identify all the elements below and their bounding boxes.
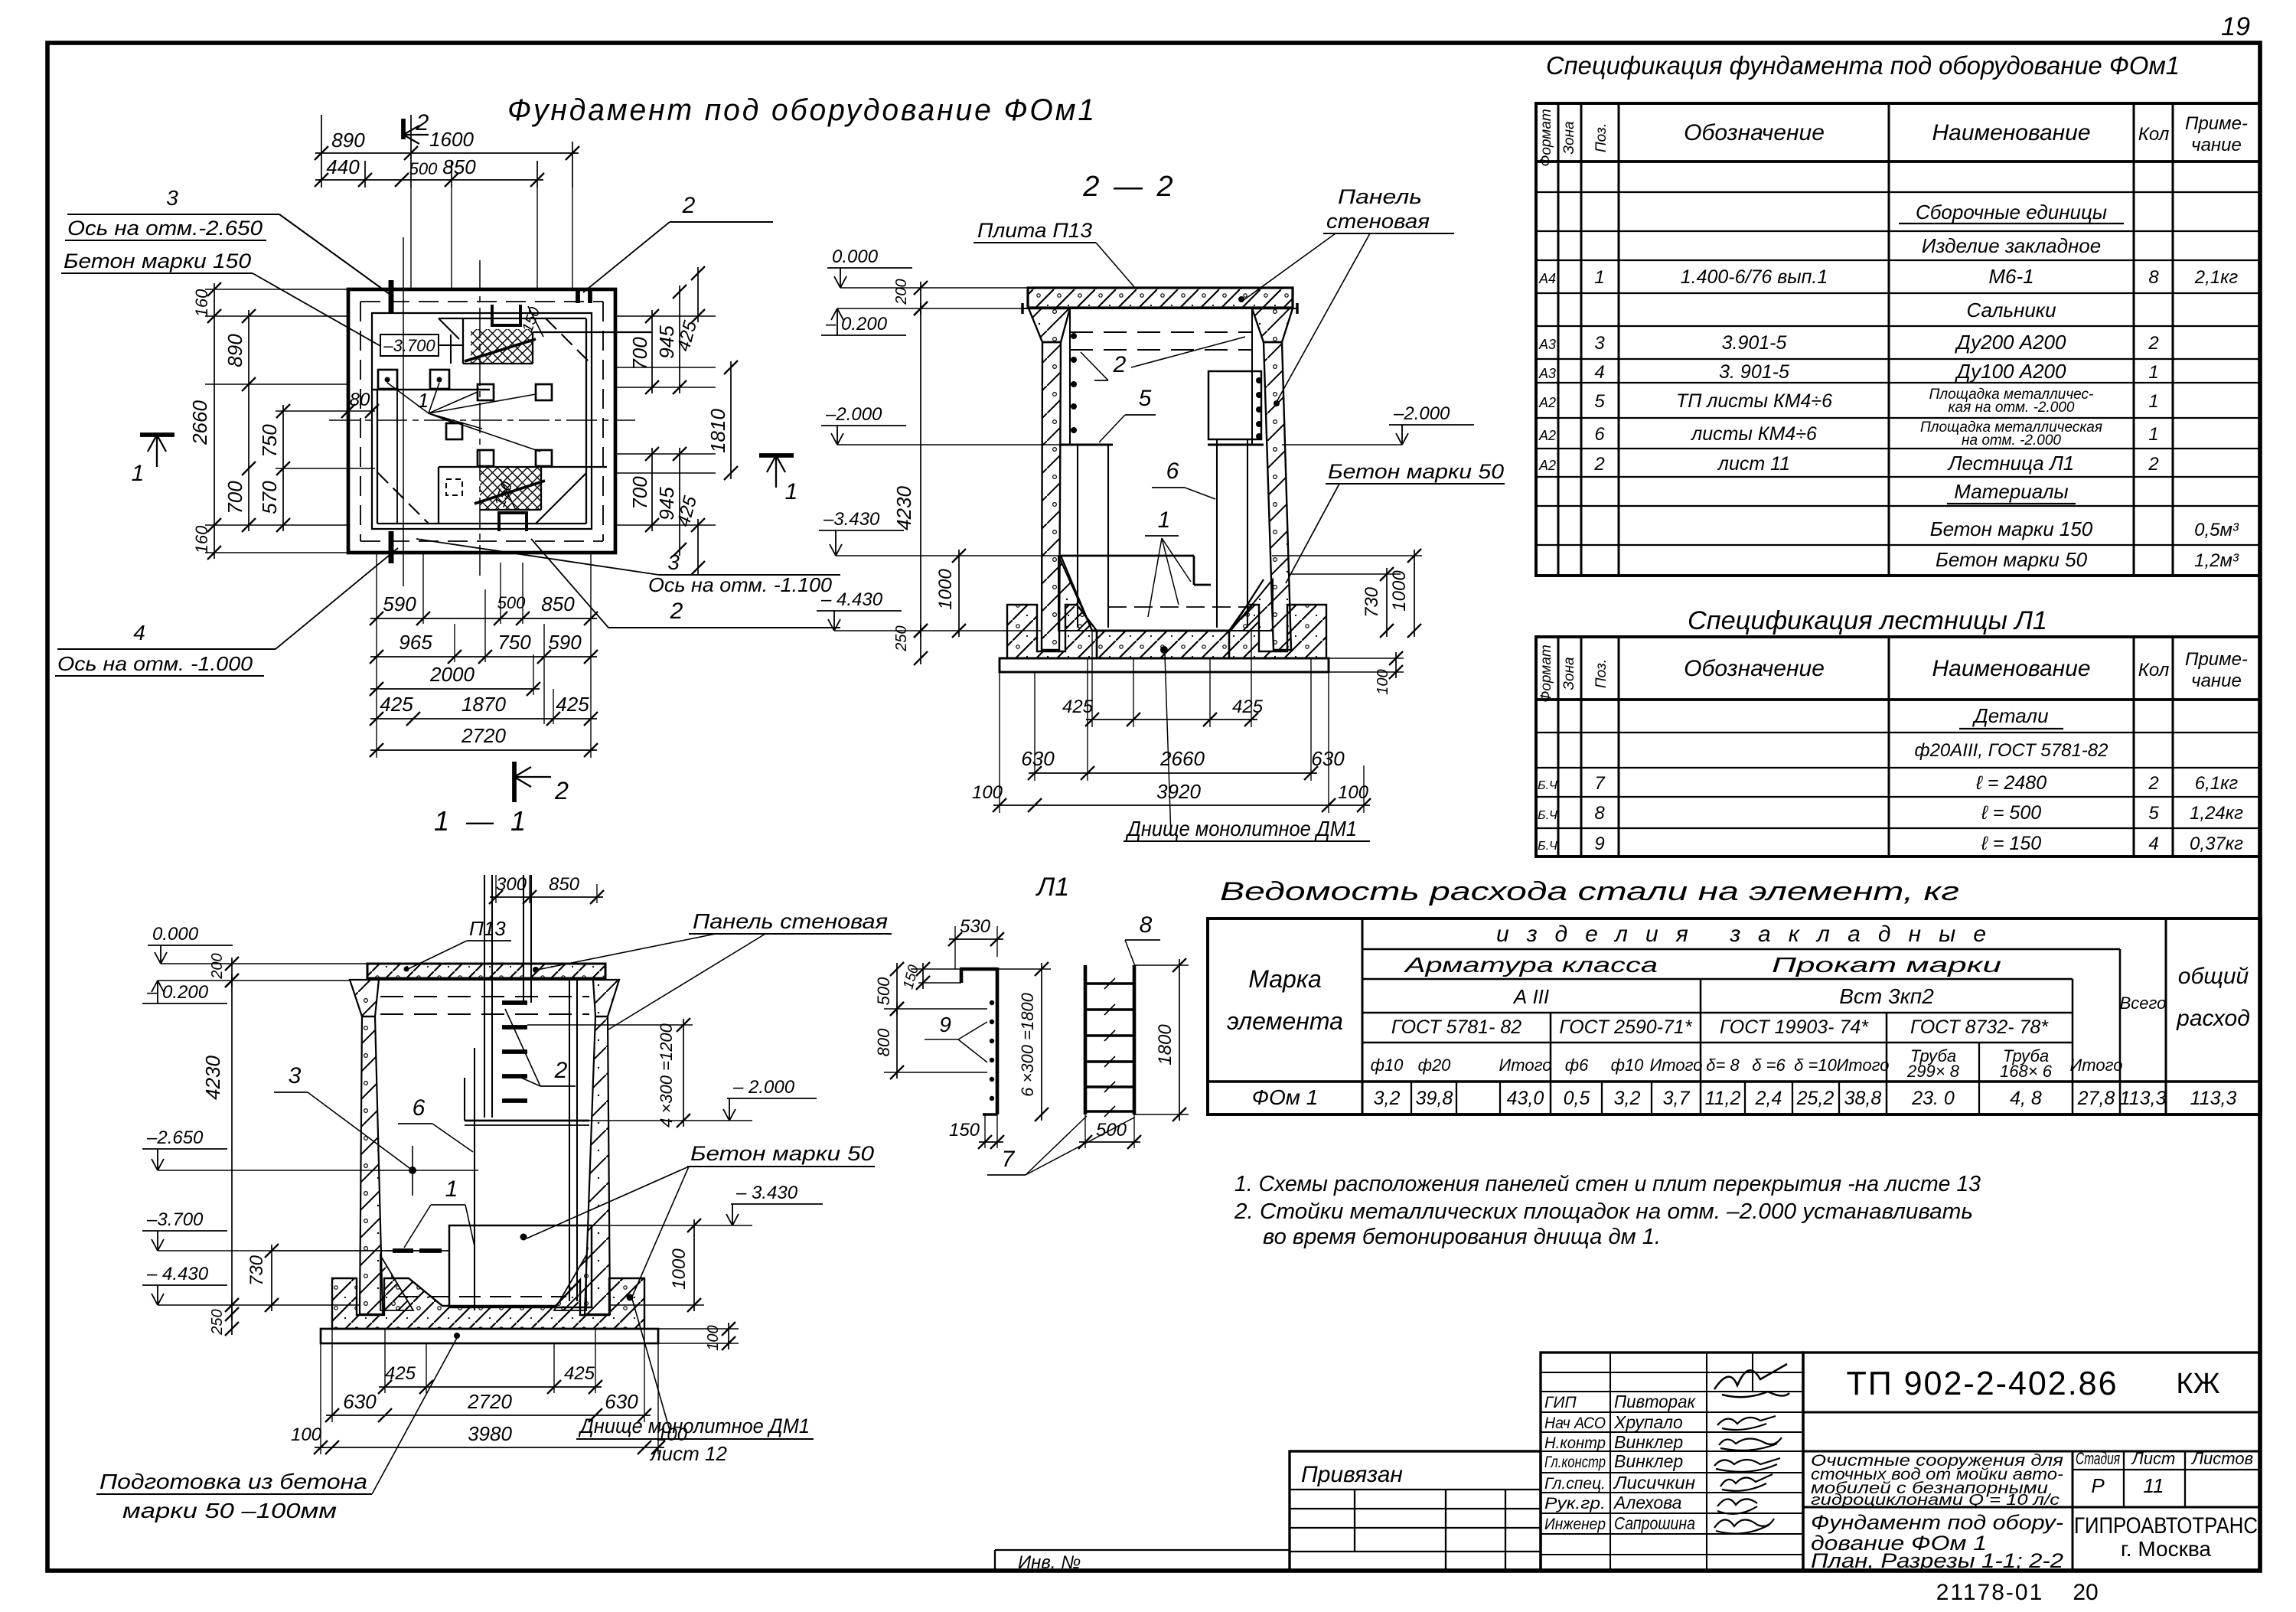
svg-text:Формат: Формат (1538, 109, 1554, 166)
svg-text:общий: общий (2178, 964, 2249, 989)
svg-text:3: 3 (667, 550, 680, 574)
svg-text:– 2.000: – 2.000 (732, 1077, 795, 1098)
svg-text:ℓ = 150: ℓ = 150 (1981, 833, 2041, 854)
svg-text:590: 590 (383, 592, 416, 615)
svg-text:700: 700 (223, 481, 246, 514)
svg-text:чание: чание (2191, 671, 2242, 691)
svg-text:ГИП: ГИП (1544, 1394, 1577, 1411)
plan: bottom dims (376, 553, 377, 758)
svg-text:3,2: 3,2 (1374, 1088, 1401, 1109)
svg-text:Лист: Лист (2131, 1449, 2176, 1468)
svg-text:Плита П13: Плита П13 (977, 219, 1092, 242)
s11: platform -2.000 (465, 1120, 589, 1122)
s22: footing middle band (1097, 631, 1229, 658)
svg-text:250: 250 (209, 1309, 226, 1335)
svg-text:–2.650: –2.650 (146, 1127, 204, 1148)
svg-text:21178-01: 21178-01 (1936, 1580, 2044, 1605)
s11: embed dashes (1) (393, 1248, 413, 1253)
svg-text:590: 590 (548, 631, 582, 654)
svg-text:25,2: 25,2 (1796, 1088, 1835, 1109)
svg-text:1000: 1000 (669, 1248, 690, 1290)
svg-text:2: 2 (554, 777, 569, 804)
svg-text:Лисичкин: Лисичкин (1613, 1473, 1695, 1493)
svg-text:890: 890 (331, 129, 365, 152)
svg-text:Сальники: Сальники (1966, 299, 2056, 321)
svg-text:Бетон марки 50: Бетон марки 50 (690, 1142, 874, 1165)
svg-text:ТП листы КМ4÷6: ТП листы КМ4÷6 (1676, 390, 1832, 412)
svg-text:Нач АСО: Нач АСО (1544, 1415, 1606, 1432)
svg-text:2 — 2: 2 — 2 (1082, 171, 1176, 203)
svg-text:630: 630 (1021, 747, 1055, 770)
L1 front: 500 dim (1084, 1114, 1086, 1148)
svg-text:1: 1 (2148, 424, 2158, 445)
svg-text:Бетон марки 50: Бетон марки 50 (1936, 548, 2088, 571)
svg-text:КЖ: КЖ (2176, 1368, 2219, 1400)
svg-text:1600: 1600 (429, 128, 474, 151)
svg-text:630: 630 (1311, 747, 1345, 770)
svg-text:Итого: Итого (1499, 1056, 1552, 1075)
svg-text:1000: 1000 (1389, 570, 1410, 612)
svg-text:Кол: Кол (2138, 660, 2170, 680)
svg-text:3980: 3980 (468, 1422, 512, 1445)
svg-text:Фундамент под обору-: Фундамент под обору- (1811, 1511, 2063, 1534)
L1 front: rungs (1085, 982, 1134, 984)
svg-text:Днище монолитное ДМ1: Днище монолитное ДМ1 (1125, 817, 1357, 840)
svg-text:– 0.200: – 0.200 (825, 314, 888, 334)
svg-text:2: 2 (416, 110, 429, 135)
svg-text:43,0: 43,0 (1507, 1088, 1544, 1109)
svg-text:8: 8 (1594, 803, 1605, 824)
svg-text:Подготовка из бетона: Подготовка из бетона (99, 1470, 367, 1493)
s11: right wall (585, 1016, 610, 1314)
svg-text:Днище монолитное ДМ1: Днище монолитное ДМ1 (578, 1415, 810, 1437)
svg-text:Инженер: Инженер (1544, 1516, 1606, 1533)
plan: -3.700 box (380, 334, 439, 356)
svg-text:ℓ = 500: ℓ = 500 (1981, 802, 2041, 824)
svg-text:1810: 1810 (706, 409, 729, 453)
plan: right dims (615, 315, 716, 317)
svg-text:2. Стойки металлических пл: 2. Стойки металлических площадок на отм.… (1234, 1199, 1973, 1224)
s22: platform box right (1208, 371, 1261, 439)
svg-text:1: 1 (2148, 362, 2158, 383)
svg-text:425: 425 (564, 1363, 595, 1384)
svg-text:Спецификация лестницы Л1: Спецификация лестницы Л1 (1688, 606, 2047, 635)
svg-text:8: 8 (2148, 267, 2159, 288)
svg-text:850: 850 (442, 155, 476, 178)
svg-text:Инв. №: Инв. № (1018, 1552, 1081, 1573)
svg-text:6: 6 (1594, 424, 1605, 445)
svg-text:300: 300 (496, 874, 527, 895)
svg-text:4230: 4230 (892, 486, 915, 530)
svg-text:2: 2 (670, 599, 683, 624)
svg-text:Ду100 А200: Ду100 А200 (1955, 360, 2066, 383)
plan: wall inner line (372, 313, 592, 529)
s11: top slab (367, 964, 605, 978)
svg-text:2000: 2000 (429, 663, 475, 686)
svg-text:Материалы: Материалы (1954, 480, 2068, 503)
svg-text:500: 500 (874, 977, 893, 1005)
svg-text:Бетон марки 150: Бетон марки 150 (1930, 517, 2093, 540)
svg-text:0,5: 0,5 (1564, 1088, 1590, 1109)
s22: wall bottom splays (1058, 556, 1092, 631)
svg-text:Прокат марки: Прокат марки (1772, 953, 2002, 977)
svg-text:Сборочные единицы: Сборочные единицы (1916, 201, 2107, 224)
svg-text:2: 2 (2148, 333, 2158, 354)
svg-text:4, 8: 4, 8 (2010, 1088, 2042, 1109)
svg-text:168× 6: 168× 6 (2000, 1062, 2053, 1081)
svg-text:Итого: Итого (1650, 1056, 1703, 1075)
L1 side: 530 dim (954, 926, 956, 969)
s11: interior post (6) (474, 1048, 475, 1310)
svg-text:чание: чание (2191, 135, 2242, 155)
s22: left wall flare (1029, 308, 1070, 342)
svg-text:Обозначение: Обозначение (1684, 656, 1825, 681)
plan: left dims (205, 315, 348, 317)
svg-text:Приме-: Приме- (2185, 649, 2248, 670)
svg-text:3,2: 3,2 (1614, 1088, 1641, 1109)
L1 side: rung stubs (990, 1000, 994, 1005)
s11: bottom dims (384, 1329, 386, 1393)
svg-text:630: 630 (343, 1390, 377, 1413)
svg-text:ГОСТ 19903- 74*: ГОСТ 19903- 74* (1720, 1016, 1869, 1038)
svg-text:113,3: 113,3 (2120, 1088, 2167, 1109)
svg-text:3: 3 (289, 1063, 302, 1088)
s22: interior posts (1077, 445, 1078, 628)
svg-text:850: 850 (541, 592, 575, 615)
plan: top dims (321, 115, 322, 188)
svg-text:1: 1 (445, 1176, 458, 1202)
svg-text:6,1кг: 6,1кг (2195, 773, 2239, 794)
svg-text:– 4.430: – 4.430 (146, 1264, 209, 1284)
svg-text:440: 440 (326, 155, 360, 178)
svg-text:Ось на отм.-2.650: Ось на отм.-2.650 (67, 217, 263, 240)
svg-text:9: 9 (1594, 834, 1604, 854)
title block: main stamp (1803, 1353, 2260, 1571)
svg-text:Листов: Листов (2190, 1449, 2253, 1468)
s11: water dashed lines (380, 996, 589, 997)
svg-text:160: 160 (192, 289, 211, 317)
svg-text:г. Москва: г. Москва (2121, 1537, 2211, 1561)
svg-text:Винклер: Винклер (1614, 1451, 1683, 1471)
s11: footing (332, 1278, 644, 1329)
svg-text:Зона: Зона (1561, 657, 1577, 690)
svg-text:Спецификация фундамента под об: Спецификация фундамента под оборудование… (1546, 51, 2180, 80)
svg-text:1: 1 (1594, 267, 1604, 288)
svg-text:3: 3 (1594, 333, 1605, 354)
svg-text:6: 6 (1166, 458, 1179, 484)
svg-text:0,37кг: 0,37кг (2190, 834, 2243, 854)
svg-text:лист 11: лист 11 (1717, 453, 1790, 475)
svg-text:500: 500 (1096, 1120, 1127, 1140)
spec table 1 grid (1536, 103, 2260, 576)
svg-text:39,8: 39,8 (1416, 1088, 1453, 1109)
svg-text:570: 570 (258, 481, 281, 514)
svg-text:11: 11 (2144, 1474, 2164, 1497)
steel table grid (1208, 919, 2261, 1114)
s22: bolts left (1071, 333, 1077, 339)
svg-text:425: 425 (1232, 697, 1264, 717)
svg-text:–2.000: –2.000 (825, 404, 882, 425)
s11: concrete block (449, 1225, 592, 1307)
s11: right wall flare (593, 980, 619, 1016)
svg-text:250: 250 (893, 625, 910, 651)
svg-text:1. Схемы расположения панел: 1. Схемы расположения панелей стен и пли… (1234, 1172, 1981, 1196)
svg-text:4: 4 (1594, 362, 1604, 383)
s22: base plate (1000, 658, 1329, 672)
svg-text:5: 5 (1594, 391, 1605, 412)
svg-text:7: 7 (1002, 1147, 1016, 1172)
svg-text:2: 2 (554, 1058, 568, 1083)
svg-text:ф20АIII, ГОСТ 5781-82: ф20АIII, ГОСТ 5781-82 (1915, 740, 2108, 761)
s11: ladder rungs (502, 1025, 527, 1030)
svg-text:113,3: 113,3 (2190, 1088, 2237, 1109)
svg-text:ф20: ф20 (1418, 1056, 1452, 1075)
svg-text:Б.Ч: Б.Ч (1538, 779, 1557, 792)
plan: outer walls (348, 289, 615, 553)
plan: small anchor squares (478, 384, 494, 400)
svg-text:6: 6 (413, 1095, 426, 1121)
svg-text:Панель: Панель (1338, 185, 1422, 208)
svg-text:ф10: ф10 (1611, 1056, 1645, 1075)
s11: wall bottom splays (380, 1255, 413, 1310)
svg-text:1: 1 (785, 479, 798, 504)
svg-text:ф6: ф6 (1565, 1056, 1589, 1075)
svg-text:27,8: 27,8 (2077, 1088, 2115, 1109)
svg-text:Приме-: Приме- (2185, 113, 2248, 134)
plan: axis tick marks bold (389, 280, 394, 314)
svg-text:200: 200 (893, 279, 910, 305)
s22: inner panel lines (1069, 308, 1071, 445)
s11: right posts (569, 981, 570, 1301)
svg-text:Рук.гр.: Рук.гр. (1544, 1495, 1606, 1512)
svg-text:850: 850 (549, 874, 580, 895)
svg-text:ГОСТ 5781- 82: ГОСТ 5781- 82 (1391, 1016, 1521, 1038)
svg-text:Формат: Формат (1538, 644, 1554, 702)
svg-text:Ду200 А200: Ду200 А200 (1955, 331, 2066, 354)
svg-text:Привязан: Привязан (1301, 1462, 1403, 1487)
svg-text:500: 500 (497, 593, 526, 612)
s22: top slab (1028, 288, 1293, 308)
svg-text:Бетон марки 150: Бетон марки 150 (64, 250, 251, 272)
svg-text:630: 630 (605, 1390, 638, 1413)
svg-text:1,24кг: 1,24кг (2190, 803, 2243, 824)
svg-text:Поз.: Поз. (1593, 123, 1609, 152)
svg-text:200: 200 (209, 953, 226, 979)
svg-text:А4: А4 (1538, 271, 1556, 286)
svg-text:–3.700: –3.700 (146, 1209, 204, 1230)
svg-text:1 — 1: 1 — 1 (434, 805, 530, 837)
svg-text:Арматура класса: Арматура класса (1403, 953, 1658, 977)
svg-text:А3: А3 (1538, 366, 1556, 381)
svg-text:750: 750 (258, 424, 281, 458)
svg-text:4230: 4230 (201, 1056, 224, 1100)
s22: platform -2.000 lines (1061, 444, 1113, 446)
svg-text:лист 12: лист 12 (649, 1442, 727, 1465)
svg-text:5: 5 (2148, 803, 2159, 824)
L1 side: bar (960, 969, 964, 983)
svg-text:М6-1: М6-1 (1988, 265, 2033, 288)
svg-text:8: 8 (1140, 912, 1153, 938)
svg-text:890: 890 (223, 334, 246, 367)
svg-text:Всего: Всего (2120, 994, 2167, 1013)
s11: dashed tank bottom (398, 1296, 566, 1297)
svg-text:4 ×300 =1200: 4 ×300 =1200 (657, 1023, 676, 1127)
svg-text:0.000: 0.000 (152, 924, 199, 945)
svg-text:А2: А2 (1538, 458, 1556, 473)
svg-text:3: 3 (166, 186, 178, 210)
s22: left wall (1042, 342, 1061, 650)
svg-text:δ =6: δ =6 (1752, 1056, 1786, 1075)
s22: bottom dims (1091, 631, 1093, 727)
svg-text:Детали: Детали (1971, 704, 2048, 727)
plan: cross-hatched patch bottom (480, 467, 541, 510)
svg-text:2720: 2720 (467, 1390, 512, 1413)
svg-text:Л1: Л1 (1035, 873, 1069, 902)
svg-text:425: 425 (1062, 697, 1094, 717)
svg-text:0,5м³: 0,5м³ (2194, 520, 2239, 540)
svg-text:– 3.430: – 3.430 (735, 1183, 798, 1203)
L1 side: left dims (911, 968, 961, 970)
s11: left wall flare (350, 980, 379, 1016)
svg-text:гидроциклонами Q = 10 л/с: гидроциклонами Q = 10 л/с (1811, 1492, 2060, 1509)
svg-text:элемента: элемента (1227, 1007, 1343, 1035)
svg-text:4: 4 (2148, 834, 2158, 854)
svg-text:3.901-5: 3.901-5 (1722, 332, 1787, 354)
svg-text:700: 700 (628, 337, 651, 370)
svg-text:425: 425 (380, 693, 413, 716)
svg-text:Ведомость расхода стали: Ведомость расхода стали на элемент, кг (1220, 877, 1959, 906)
svg-text:530: 530 (960, 916, 991, 937)
svg-text:6 ×300 =1800: 6 ×300 =1800 (1018, 992, 1037, 1097)
plan: corner chamfer dashed (546, 318, 589, 362)
svg-text:2660: 2660 (188, 400, 211, 445)
plan: section mark 2 top (401, 119, 406, 139)
svg-text:7: 7 (1594, 773, 1606, 794)
svg-text:Б.Ч: Б.Ч (1538, 809, 1557, 822)
svg-text:1: 1 (132, 461, 145, 486)
svg-text:4: 4 (133, 621, 145, 644)
svg-text:–3.430: –3.430 (823, 509, 880, 530)
plan: inner room outline (439, 318, 586, 319)
svg-text:3. 901-5: 3. 901-5 (1719, 361, 1789, 383)
svg-text:кая на отм. -2.000: кая на отм. -2.000 (1949, 400, 2075, 416)
L1 front: 1800 dim (1179, 959, 1180, 1121)
svg-text:38,8: 38,8 (1844, 1088, 1882, 1109)
svg-text:Ось на отм. -1.100: Ось на отм. -1.100 (648, 573, 833, 596)
plan: top-right room step (462, 318, 464, 364)
plan: section mark 1 right (759, 453, 794, 458)
svg-text:Панель стеновая: Панель стеновая (693, 909, 888, 933)
title block: left attachment table (1290, 1451, 1541, 1571)
svg-text:1: 1 (1158, 507, 1171, 533)
svg-text:Изделие закладное: Изделие закладное (1922, 234, 2101, 257)
svg-text:299× 8: 299× 8 (1906, 1062, 1960, 1081)
svg-text:3,7: 3,7 (1663, 1088, 1691, 1109)
svg-text:ФОм 1: ФОм 1 (1252, 1085, 1319, 1109)
svg-text:2,1кг: 2,1кг (2194, 267, 2239, 288)
svg-text:Ось на отм. -1.000: Ось на отм. -1.000 (57, 652, 253, 675)
svg-text:100: 100 (291, 1424, 322, 1445)
svg-text:2: 2 (1113, 352, 1127, 377)
svg-text:Кол: Кол (2138, 124, 2170, 145)
plan: section mark 2 bottom (512, 762, 517, 802)
svg-text:0.000: 0.000 (832, 246, 879, 267)
svg-text:ГИПРОАВТОТРАНС: ГИПРОАВТОТРАНС (2074, 1513, 2258, 1539)
svg-text:Р: Р (2091, 1474, 2105, 1497)
svg-text:на отм. -2.000: на отм. -2.000 (1962, 432, 2061, 449)
svg-text:Алехова: Алехова (1613, 1493, 1681, 1512)
svg-text:А3: А3 (1538, 337, 1556, 352)
svg-text:Гл.спец.: Гл.спец. (1544, 1475, 1606, 1493)
s11: base plate (321, 1329, 658, 1343)
svg-text:ф10: ф10 (1371, 1056, 1404, 1075)
svg-text:2,4: 2,4 (1755, 1088, 1782, 1109)
plan: centre axis lines (479, 260, 481, 578)
svg-text:Обозначение: Обозначение (1684, 120, 1825, 145)
svg-text:1,2м³: 1,2м³ (2194, 550, 2239, 571)
s22: footing left block (1007, 605, 1097, 658)
plan: anchor plates with bolts (378, 370, 397, 389)
svg-text:ГОСТ 8732- 78*: ГОСТ 8732- 78* (1910, 1016, 2049, 1038)
svg-text:Б.Ч: Б.Ч (1538, 840, 1557, 853)
svg-text:– 4.430: – 4.430 (820, 589, 883, 610)
svg-text:3920: 3920 (1156, 780, 1201, 803)
s22: right wall flare (1252, 308, 1293, 342)
plan: dashed anchor square (446, 479, 462, 495)
svg-text:во время бетонирования дни: во время бетонирования днища дм 1. (1263, 1225, 1661, 1249)
svg-text:700: 700 (628, 476, 651, 510)
svg-text:2: 2 (2148, 773, 2158, 794)
s22: footing right block (1229, 605, 1326, 658)
s11: left wall (360, 1016, 383, 1314)
svg-text:1: 1 (418, 389, 429, 412)
plan: cross-hatched patch top (471, 329, 532, 364)
svg-text:ГОСТ 2590-71*: ГОСТ 2590-71* (1559, 1016, 1692, 1038)
svg-text:425: 425 (556, 693, 589, 716)
svg-text:2: 2 (2148, 454, 2158, 475)
svg-text:965: 965 (399, 631, 432, 654)
svg-text:2: 2 (682, 193, 696, 218)
plan: wall centre dashed (360, 301, 603, 302)
svg-text:ТП 902-2-402.86: ТП 902-2-402.86 (1847, 1365, 2118, 1402)
L1 side: 150 bottom dim (984, 1114, 986, 1148)
svg-text:Поз.: Поз. (1593, 659, 1609, 688)
s22: right wall (1264, 342, 1291, 650)
L1 front: rails (1084, 965, 1088, 1114)
s11: crosshair dot (3) (386, 1170, 478, 1171)
svg-text:Наименование: Наименование (1932, 656, 2090, 681)
signatures (1714, 1364, 1789, 1397)
svg-text:План, Разрезы 1-1; 2-2: План, Разрезы 1-1; 2-2 (1811, 1549, 2063, 1572)
svg-text:Винклер: Винклер (1614, 1432, 1683, 1452)
L1 side: 6x300 dim (1041, 963, 1042, 1121)
svg-text:стеновая: стеновая (1326, 210, 1430, 233)
svg-text:Пивторак: Пивторак (1614, 1392, 1696, 1411)
svg-text:425: 425 (385, 1363, 416, 1384)
s22: water dashed lines (1070, 331, 1252, 333)
svg-text:1: 1 (2148, 391, 2158, 412)
svg-text:1.400-6/76 вып.1: 1.400-6/76 вып.1 (1681, 266, 1828, 288)
svg-text:А III: А III (1512, 985, 1549, 1008)
svg-text:Марка: Марка (1248, 965, 1322, 993)
svg-text:Хрупало: Хрупало (1613, 1412, 1683, 1432)
svg-text:160: 160 (192, 525, 211, 553)
svg-text:Итого: Итого (2070, 1056, 2123, 1075)
svg-text:Наименование: Наименование (1932, 120, 2090, 145)
svg-text:20: 20 (2073, 1580, 2098, 1605)
plan: U bracket top (492, 305, 520, 325)
svg-text:11,2: 11,2 (1705, 1088, 1741, 1109)
